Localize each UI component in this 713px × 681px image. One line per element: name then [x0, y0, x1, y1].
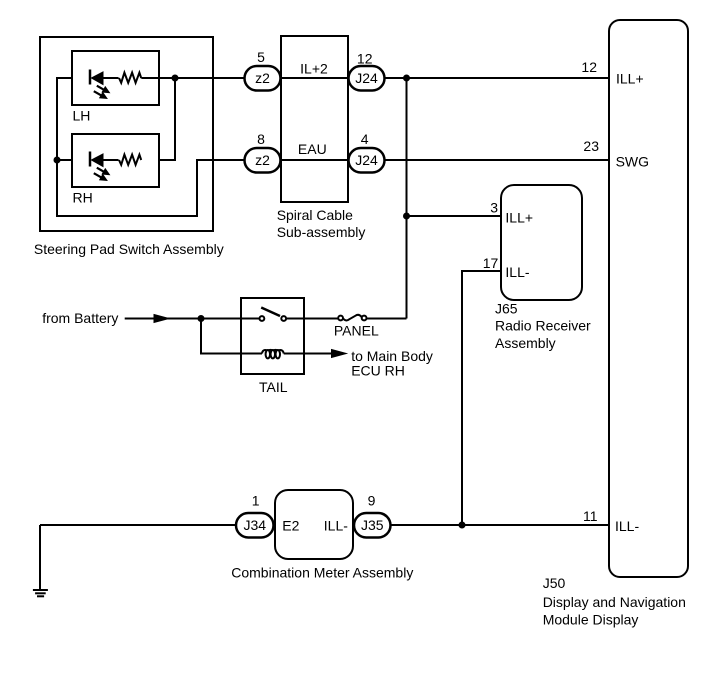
wire from battery [125, 318, 241, 320]
svg-text:Display and Navigation: Display and Navigation [543, 594, 686, 610]
svg-text:J24: J24 [355, 70, 378, 86]
spiral cable sub-assembly box [281, 36, 348, 202]
svg-text:Spiral Cable: Spiral Cable [277, 207, 353, 223]
relay box TAIL [241, 298, 304, 374]
svg-text:ILL-: ILL- [615, 518, 639, 534]
relay switch contacts [260, 316, 287, 321]
svg-text:5: 5 [257, 49, 265, 65]
svg-text:J50: J50 [543, 575, 566, 591]
svg-text:Sub-assembly: Sub-assembly [277, 224, 366, 240]
junction node ILL+ riser top [403, 75, 410, 82]
resistor RH [119, 155, 141, 165]
svg-text:11: 11 [583, 508, 598, 524]
svg-text:SWG: SWG [616, 154, 649, 170]
junction node battery to coil [198, 315, 205, 322]
junction node LH/RH output [172, 75, 179, 82]
svg-text:ILL+: ILL+ [505, 210, 533, 226]
svg-text:Module Display: Module Display [543, 611, 639, 627]
wire vertical panel feed [406, 78, 408, 319]
svg-text:z2: z2 [255, 152, 270, 168]
RH switch box [72, 134, 159, 187]
wire RH LED input [57, 159, 72, 161]
wire to J65 pin 3 [407, 215, 502, 217]
svg-text:J65: J65 [495, 300, 518, 316]
connector J35 pin 9 [354, 513, 391, 538]
connector J65 radio receiver box [501, 185, 582, 300]
junction node to J65 pin 3 [403, 213, 410, 220]
wire bottom route to z2 pin 8 [57, 160, 245, 216]
svg-text:12: 12 [581, 59, 597, 75]
svg-text:z2: z2 [255, 70, 270, 86]
svg-text:PANEL: PANEL [334, 323, 379, 339]
wire J24-12 to J50 pin 12 [384, 77, 609, 79]
svg-text:J35: J35 [361, 517, 384, 533]
svg-text:23: 23 [583, 138, 599, 154]
wire J24-4 to J50 pin 23 [384, 159, 609, 161]
connector J34 pin 1 [236, 513, 274, 538]
svg-text:J34: J34 [244, 517, 267, 533]
ground stem [39, 525, 41, 589]
svg-text:1: 1 [252, 493, 260, 509]
wire LH LED to junction [141, 77, 244, 79]
wire relay switch to fuse [286, 318, 338, 320]
connector z2 pin 5 [245, 66, 281, 91]
wire RH LED output [159, 78, 175, 160]
LH switch box [72, 51, 159, 105]
svg-text:12: 12 [357, 51, 373, 67]
resistor LH [119, 73, 141, 83]
wire relay coil feed [201, 319, 262, 354]
svg-text:J24: J24 [355, 152, 378, 168]
ground symbol [33, 590, 48, 596]
wire relay switch input inside box [241, 318, 260, 320]
svg-text:8: 8 [257, 131, 265, 147]
connector J24 pin 4 [349, 148, 385, 173]
svg-text:to Main Body: to Main Body [351, 348, 433, 364]
arrow to main body ECU [332, 350, 347, 358]
wire J65 pin 17 down [462, 271, 501, 525]
svg-text:E2: E2 [282, 518, 299, 534]
svg-text:17: 17 [483, 255, 499, 271]
arrow from battery [154, 315, 169, 323]
svg-text:3: 3 [490, 200, 498, 216]
wire ground to J34 [40, 524, 236, 526]
wire J35 to J50 pin 11 [391, 524, 610, 526]
svg-text:IL+2: IL+2 [300, 60, 328, 76]
svg-text:EAU: EAU [298, 141, 327, 157]
svg-text:from Battery: from Battery [42, 310, 118, 326]
svg-text:ILL-: ILL- [505, 264, 529, 280]
svg-text:TAIL: TAIL [259, 379, 288, 395]
svg-text:LH: LH [73, 108, 91, 124]
svg-text:Assembly: Assembly [495, 335, 556, 351]
relay switch blade [261, 308, 280, 317]
svg-text:ECU RH: ECU RH [351, 363, 405, 379]
wire z2-5 to J24-12 inside spiral box [280, 77, 349, 79]
connector J50 display module box [609, 20, 688, 577]
LED RH [90, 152, 109, 181]
wire LED bar to resistor RH [103, 159, 119, 161]
connector z2 pin 8 [245, 148, 281, 173]
LED LH [90, 70, 109, 99]
relay coil [262, 350, 284, 358]
svg-text:ILL-: ILL- [324, 518, 348, 534]
wire z2-8 to J24-4 inside spiral box [280, 159, 349, 161]
fuse PANEL [338, 315, 366, 321]
svg-text:Steering Pad Switch Assembly: Steering Pad Switch Assembly [34, 241, 224, 257]
svg-text:ILL+: ILL+ [616, 71, 644, 87]
svg-text:9: 9 [368, 493, 376, 509]
junction node LH/RH input [54, 157, 61, 164]
wire fuse to vertical riser [366, 318, 406, 320]
svg-text:Combination Meter Assembly: Combination Meter Assembly [231, 564, 413, 580]
wire LED bar to resistor LH [103, 77, 119, 79]
svg-text:Radio Receiver: Radio Receiver [495, 317, 591, 333]
steering pad switch assembly outer box [40, 37, 213, 231]
svg-text:RH: RH [73, 190, 93, 206]
combination meter E2 box [275, 490, 353, 559]
wire LH LED input [57, 78, 72, 160]
junction node ILL- bus [459, 522, 466, 529]
svg-text:4: 4 [361, 131, 369, 147]
connector J24 pin 12 [349, 66, 385, 91]
wire relay coil output [284, 353, 334, 355]
